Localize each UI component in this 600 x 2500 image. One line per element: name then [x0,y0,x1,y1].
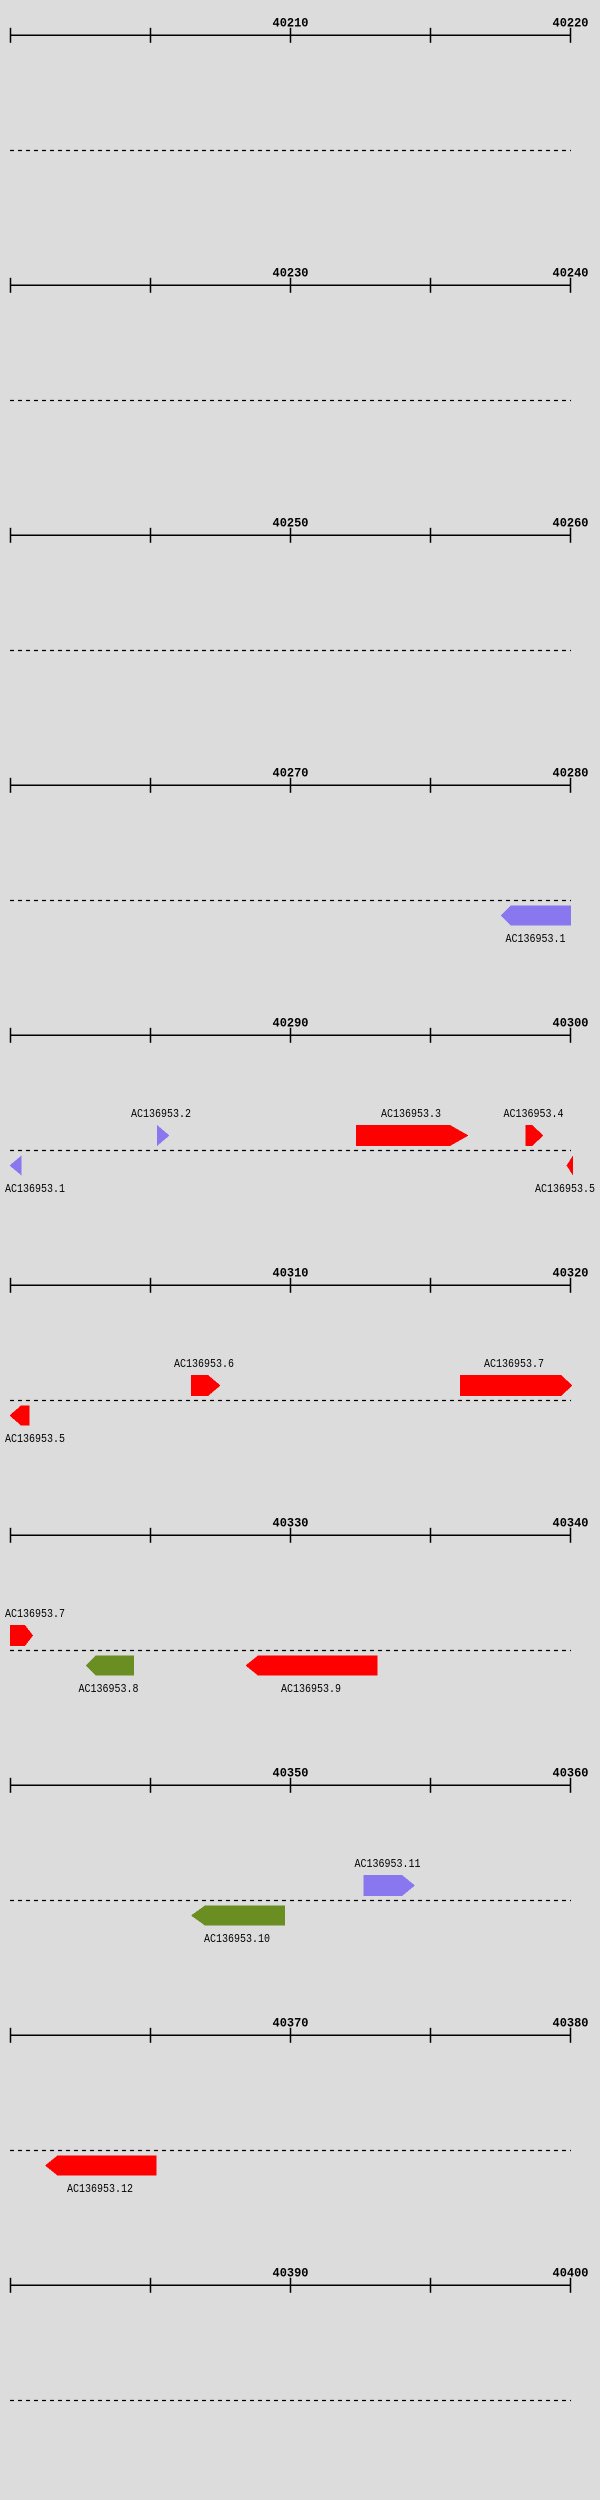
svg-text:AC136953.1: AC136953.1 [5,1182,65,1196]
panel 10 dashed baseline [10,2400,571,2402]
panel 6 ruler line with ticks [10,1278,571,1293]
svg-text:40290: 40290 [273,1016,309,1031]
feature AC136953.10 arrow (panel 8) [191,1906,285,1926]
svg-text:40300: 40300 [553,1016,589,1031]
svg-text:AC136953.12: AC136953.12 [67,2182,133,2196]
feature AC136953.6 arrow (panel 6) [191,1375,221,1396]
svg-text:40360: 40360 [553,1766,589,1781]
panel 5 dashed baseline [10,1150,571,1152]
feature AC136953.9 arrow (panel 7) [246,1656,378,1676]
svg-text:AC136953.10: AC136953.10 [204,1932,270,1946]
panel 3 dashed baseline [10,650,571,652]
svg-text:40230: 40230 [273,266,309,281]
panel 3 ruler line with ticks [10,528,571,543]
panel 2 dashed baseline [10,400,571,402]
svg-text:AC136953.3: AC136953.3 [381,1107,441,1121]
svg-text:AC136953.7: AC136953.7 [484,1357,544,1371]
feature AC136953.1 arrow (panel 4) [501,906,572,926]
panel 1 ruler line with ticks [10,28,571,43]
svg-text:AC136953.9: AC136953.9 [281,1682,341,1696]
panel 7 dashed baseline [10,1650,571,1652]
svg-text:40280: 40280 [553,766,589,781]
panel 9 ruler line with ticks [10,2028,571,2043]
svg-text:AC136953.4: AC136953.4 [504,1107,564,1121]
svg-text:40340: 40340 [553,1516,589,1531]
feature AC136953.5 arrow (panel 5) [567,1156,574,1176]
svg-text:40330: 40330 [273,1516,309,1531]
svg-text:40270: 40270 [273,766,309,781]
svg-text:AC136953.2: AC136953.2 [131,1107,191,1121]
svg-text:40350: 40350 [273,1766,309,1781]
feature AC136953.5 arrow (panel 6) [10,1406,30,1426]
svg-text:AC136953.7: AC136953.7 [5,1607,65,1621]
feature AC136953.4 arrow (panel 5) [526,1125,544,1146]
panel 4 dashed baseline [10,900,571,902]
svg-text:40260: 40260 [553,516,589,531]
panel 4 ruler line with ticks [10,778,571,793]
svg-text:40240: 40240 [553,266,589,281]
feature AC136953.11 arrow (panel 8) [364,1875,416,1896]
svg-text:40370: 40370 [273,2016,309,2031]
feature AC136953.8 arrow (panel 7) [86,1656,135,1676]
svg-text:AC136953.6: AC136953.6 [174,1357,234,1371]
svg-text:40220: 40220 [553,16,589,31]
svg-text:AC136953.5: AC136953.5 [535,1182,595,1196]
feature AC136953.7 arrow (panel 7) [10,1625,33,1646]
svg-text:40210: 40210 [273,16,309,31]
panel 5 ruler line with ticks [10,1028,571,1043]
svg-text:AC136953.8: AC136953.8 [79,1682,139,1696]
panel 9 dashed baseline [10,2150,571,2152]
svg-text:40380: 40380 [553,2016,589,2031]
svg-text:AC136953.1: AC136953.1 [506,932,566,946]
feature AC136953.2 arrow (panel 5) [157,1125,170,1146]
feature AC136953.3 arrow (panel 5) [356,1125,469,1146]
feature AC136953.7 arrow (panel 6) [460,1375,573,1396]
svg-text:AC136953.5: AC136953.5 [5,1432,65,1446]
panel 1 dashed baseline [10,150,571,152]
feature AC136953.1 arrow (panel 5) [10,1156,22,1176]
feature AC136953.12 arrow (panel 9) [45,2156,157,2176]
panel 7 ruler line with ticks [10,1528,571,1543]
panel 8 dashed baseline [10,1900,571,1902]
panel 10 ruler line with ticks [10,2278,571,2293]
panel 8 ruler line with ticks [10,1778,571,1793]
svg-text:40320: 40320 [553,1266,589,1281]
panel 6 dashed baseline [10,1400,571,1402]
svg-text:40390: 40390 [273,2266,309,2281]
svg-text:40400: 40400 [553,2266,589,2281]
svg-text:40250: 40250 [273,516,309,531]
panel 2 ruler line with ticks [10,278,571,293]
svg-text:40310: 40310 [273,1266,309,1281]
svg-text:AC136953.11: AC136953.11 [355,1857,421,1871]
